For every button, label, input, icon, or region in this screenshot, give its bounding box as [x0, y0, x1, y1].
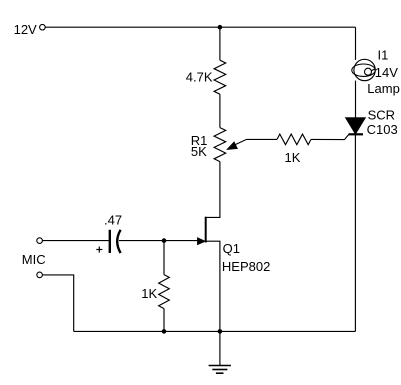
resistor 4.7K — [214, 60, 226, 94]
svg-text:SCR: SCR — [368, 107, 395, 122]
label 4.7K — [186, 70, 213, 85]
wire top rail — [45, 26, 355, 28]
wire right rail top — [355, 27, 357, 60]
label plus — [96, 247, 102, 253]
wire wiper to gate resistor — [235, 139, 278, 145]
svg-text:Lamp: Lamp — [367, 81, 400, 96]
wire bottom rail — [74, 330, 356, 332]
wire 4.7K to R1 — [219, 94, 221, 127]
svg-text:HEP802: HEP802 — [222, 259, 270, 274]
node junction emitter bottom — [218, 329, 223, 334]
label SCR — [368, 107, 395, 122]
lamp I1 — [352, 59, 376, 80]
svg-text:MIC: MIC — [22, 252, 46, 267]
svg-text:4.7K: 4.7K — [186, 70, 213, 85]
transistor Q1 — [197, 217, 205, 245]
label MIC — [22, 252, 46, 267]
wire junction to 4.7K — [219, 27, 221, 60]
terminal MIC bottom — [37, 272, 43, 278]
svg-text:Q1: Q1 — [223, 241, 240, 256]
label .47 — [104, 212, 122, 227]
capacitor .47 — [110, 230, 121, 253]
node junction 1K bottom — [162, 329, 167, 334]
wire R1 to Q1 collector — [206, 162, 220, 218]
label R1 — [191, 133, 208, 148]
label I1 — [378, 48, 389, 63]
SCR C103 — [345, 118, 365, 135]
resistor R1 — [214, 128, 226, 162]
wire gate resistor to SCR gate — [311, 134, 349, 139]
svg-text:.47: .47 — [104, 212, 122, 227]
label Lamp — [367, 81, 400, 96]
wire MIC bottom to bottom rail — [43, 275, 74, 332]
label 1K gate — [285, 150, 301, 165]
wiper arrow R1 — [227, 142, 238, 150]
svg-text:14V: 14V — [375, 65, 398, 80]
label C103 — [367, 122, 398, 137]
ground — [209, 331, 231, 373]
svg-text:1K: 1K — [141, 286, 157, 301]
label 5K — [191, 144, 207, 159]
resistor 1K emitter — [159, 275, 170, 309]
wire right rail bottom — [354, 134, 356, 331]
svg-text:5K: 5K — [191, 144, 207, 159]
wire 1K to bottom rail — [163, 309, 165, 332]
label 14V — [375, 65, 398, 80]
label 12V — [14, 22, 37, 37]
label 1K emitter — [141, 286, 157, 301]
resistor 1K gate — [277, 134, 311, 145]
svg-text:1K: 1K — [285, 150, 301, 165]
label Q1 — [223, 241, 240, 256]
svg-text:I1: I1 — [378, 48, 389, 63]
wire junction to 1K — [163, 241, 165, 275]
wire Q1 emitter — [206, 241, 220, 331]
wire lamp to SCR — [355, 81, 357, 118]
terminal 12V — [40, 24, 46, 30]
wire capacitor to Q1 base — [119, 240, 198, 242]
node junction top — [218, 25, 223, 30]
terminal MIC top — [37, 238, 43, 244]
wire MIC to capacitor — [43, 240, 109, 242]
svg-text:12V: 12V — [14, 22, 37, 37]
label HEP802 — [222, 259, 270, 274]
svg-text:C103: C103 — [367, 122, 398, 137]
node junction base — [162, 238, 167, 243]
